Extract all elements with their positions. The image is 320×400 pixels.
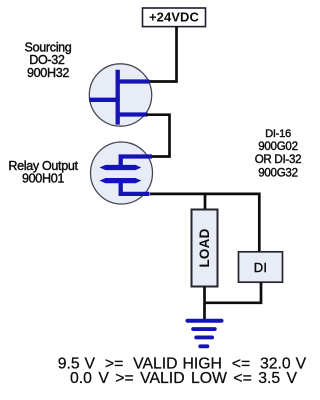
transistor Q1 circle (Sourcing DO-32 output): [89, 64, 151, 126]
svg-text:DI: DI: [254, 260, 268, 275]
transistor Q1 symbol: [89, 70, 149, 125]
svg-text:LOAD: LOAD: [197, 228, 212, 267]
ground symbol: [186, 319, 224, 349]
wire: LOAD bottom to ground: [203, 287, 206, 320]
svg-text:+24VDC: +24VDC: [149, 10, 200, 25]
svg-text:DI-16: DI-16: [265, 128, 291, 140]
label: DI-16 900G02 OR DI-32 900G32: [255, 128, 302, 179]
label: Relay Output 900H01: [8, 159, 78, 186]
power supply box +24VDC: [143, 8, 206, 27]
svg-text:0.0 V >= VALID LOW <= 3.5 V: 0.0 V >= VALID LOW <= 3.5 V: [70, 370, 298, 387]
svg-text:900G02: 900G02: [258, 140, 297, 153]
relay contact lower plate: [100, 178, 142, 183]
svg-text:900H01: 900H01: [22, 172, 64, 186]
wire: DI bottom joining ground stem: [204, 282, 262, 303]
wire: branch down to LOAD: [204, 194, 207, 210]
svg-text:900G32: 900G32: [258, 166, 297, 179]
svg-text:OR DI-32: OR DI-32: [255, 153, 302, 166]
relay output circle 900H01: [91, 142, 153, 204]
svg-text:900H32: 900H32: [27, 66, 69, 80]
wire: transistor emitter to relay input: [146, 115, 170, 157]
load box LOAD: [192, 210, 218, 287]
input box DI: [239, 252, 283, 282]
label: Sourcing DO-32 900H32: [25, 41, 72, 81]
relay contact upper plate: [100, 165, 142, 170]
wire: +24VDC down to transistor collector: [147, 27, 177, 82]
wire: relay output to LOAD and DI: [150, 194, 259, 252]
relay contact symbol: [121, 157, 152, 194]
caption: valid voltage levels: [58, 355, 307, 387]
